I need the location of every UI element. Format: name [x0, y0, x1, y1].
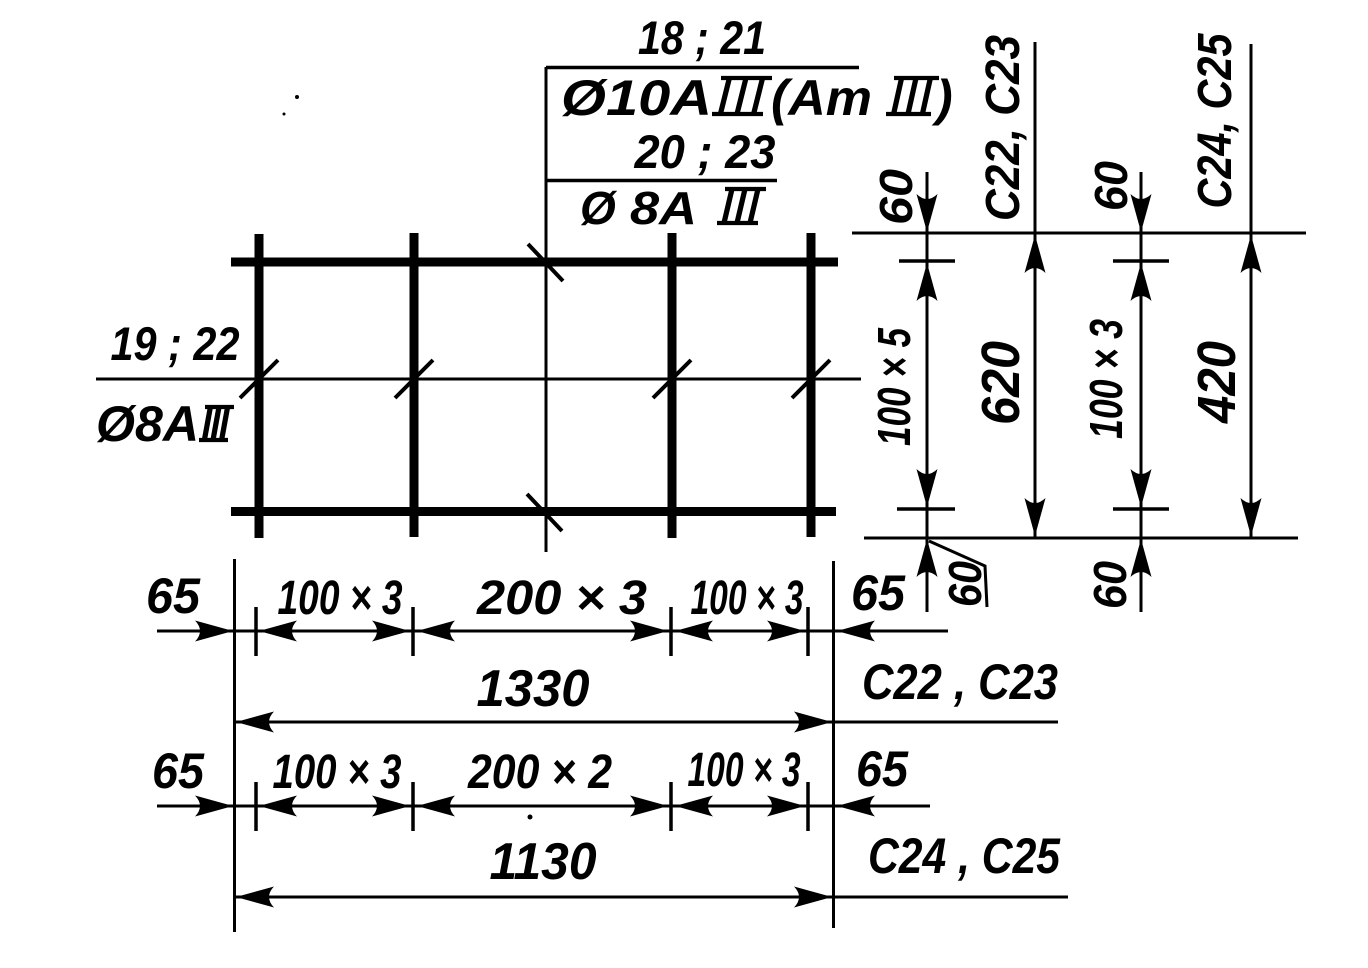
- roman III inside parentheses: [886, 78, 939, 114]
- cross mark at leader on top bar: [528, 244, 563, 281]
- cross mark at bar 1 on axis: [240, 360, 278, 398]
- scan speck: [528, 815, 533, 820]
- svg-text:60: 60: [939, 561, 991, 607]
- svg-text:100 × 3: 100 × 3: [273, 746, 402, 799]
- svg-text:Ø10A: Ø10A: [561, 70, 712, 126]
- scan speck: [283, 113, 286, 116]
- svg-text:100 × 3: 100 × 3: [688, 744, 801, 797]
- svg-text:C22 , C23: C22 , C23: [862, 654, 1058, 710]
- bent leader for bottom 60 of chain A: [929, 541, 987, 607]
- mesh middle wire axis line: [96, 378, 861, 381]
- svg-text:18 ; 21: 18 ; 21: [638, 11, 766, 64]
- svg-text:1130: 1130: [490, 833, 597, 891]
- svg-text:200 × 3: 200 × 3: [476, 572, 647, 625]
- svg-text:C24 , C25: C24 , C25: [868, 828, 1061, 884]
- svg-text:1330: 1330: [477, 660, 590, 718]
- svg-text:200 × 2: 200 × 2: [467, 746, 612, 799]
- svg-text:20 ; 23: 20 ; 23: [634, 125, 776, 178]
- mesh longitudinal bar 4: [807, 233, 816, 537]
- dimension row 65/100x3/200x2/100x3/65: [157, 782, 930, 831]
- svg-text:19 ; 22: 19 ; 22: [111, 317, 240, 370]
- svg-text:65: 65: [856, 741, 909, 797]
- svg-text:Ø8A: Ø8A: [96, 396, 199, 452]
- extension of top bar edge (right block top line): [852, 232, 1306, 235]
- svg-text:100 × 3: 100 × 3: [1080, 319, 1132, 439]
- dimension chain 60/100x5/60 line with arrows and ticks: [897, 172, 955, 612]
- svg-text:C24, C25: C24, C25: [1189, 32, 1242, 208]
- dimension line 620 overall height: [1025, 42, 1046, 538]
- roman III of dia8 label: [717, 189, 766, 223]
- svg-text:100 × 3: 100 × 3: [278, 572, 403, 625]
- left extension line: [233, 559, 236, 932]
- cross mark at bar 3 on axis: [653, 360, 691, 398]
- svg-text:(Am: (Am: [771, 70, 872, 126]
- cross mark at bar 2 on axis: [395, 360, 433, 398]
- svg-text:65: 65: [851, 565, 906, 621]
- mesh longitudinal bar 2: [410, 233, 419, 537]
- roman III of dia10 label: [712, 78, 772, 114]
- svg-text:60: 60: [1085, 161, 1137, 211]
- svg-text:60: 60: [1084, 561, 1136, 609]
- svg-text:100 × 3: 100 × 3: [691, 572, 804, 625]
- svg-text:65: 65: [146, 568, 201, 624]
- dimension chain 60/100x3/60 line with arrows and ticks: [1113, 172, 1169, 612]
- underline of 20;23: [546, 179, 777, 183]
- scan speck: [295, 95, 299, 99]
- extension of bottom bar edge (right block bottom line): [864, 537, 1298, 540]
- svg-text:420: 420: [1187, 341, 1247, 424]
- dimension row 65/100x3/200x3/100x3/65: [157, 607, 948, 656]
- svg-text:620: 620: [971, 341, 1031, 425]
- right extension line: [832, 561, 835, 928]
- svg-text:C22, C23: C22, C23: [977, 35, 1030, 221]
- dimension line 1330 overall: [234, 712, 1058, 733]
- roman III of left label: [199, 407, 234, 440]
- dimension line 420 overall height: [1241, 44, 1262, 538]
- svg-text:60: 60: [870, 169, 922, 225]
- svg-text:8A: 8A: [630, 182, 697, 234]
- cross mark at leader on bottom bar: [527, 494, 562, 531]
- svg-text:Ø: Ø: [580, 182, 618, 234]
- mesh longitudinal bar 1: [255, 234, 264, 538]
- mesh top transverse bar: [231, 258, 838, 267]
- svg-text:100 × 5: 100 × 5: [868, 327, 920, 446]
- mesh bottom transverse bar: [231, 507, 836, 516]
- svg-text:65: 65: [152, 743, 205, 799]
- mesh longitudinal bar 3: [668, 233, 677, 538]
- cross mark at bar 4 on axis: [792, 360, 830, 398]
- dimension line 1130 overall: [234, 887, 1068, 908]
- leader line of bar mark labels: [545, 67, 548, 552]
- underline of 18;21: [546, 66, 859, 70]
